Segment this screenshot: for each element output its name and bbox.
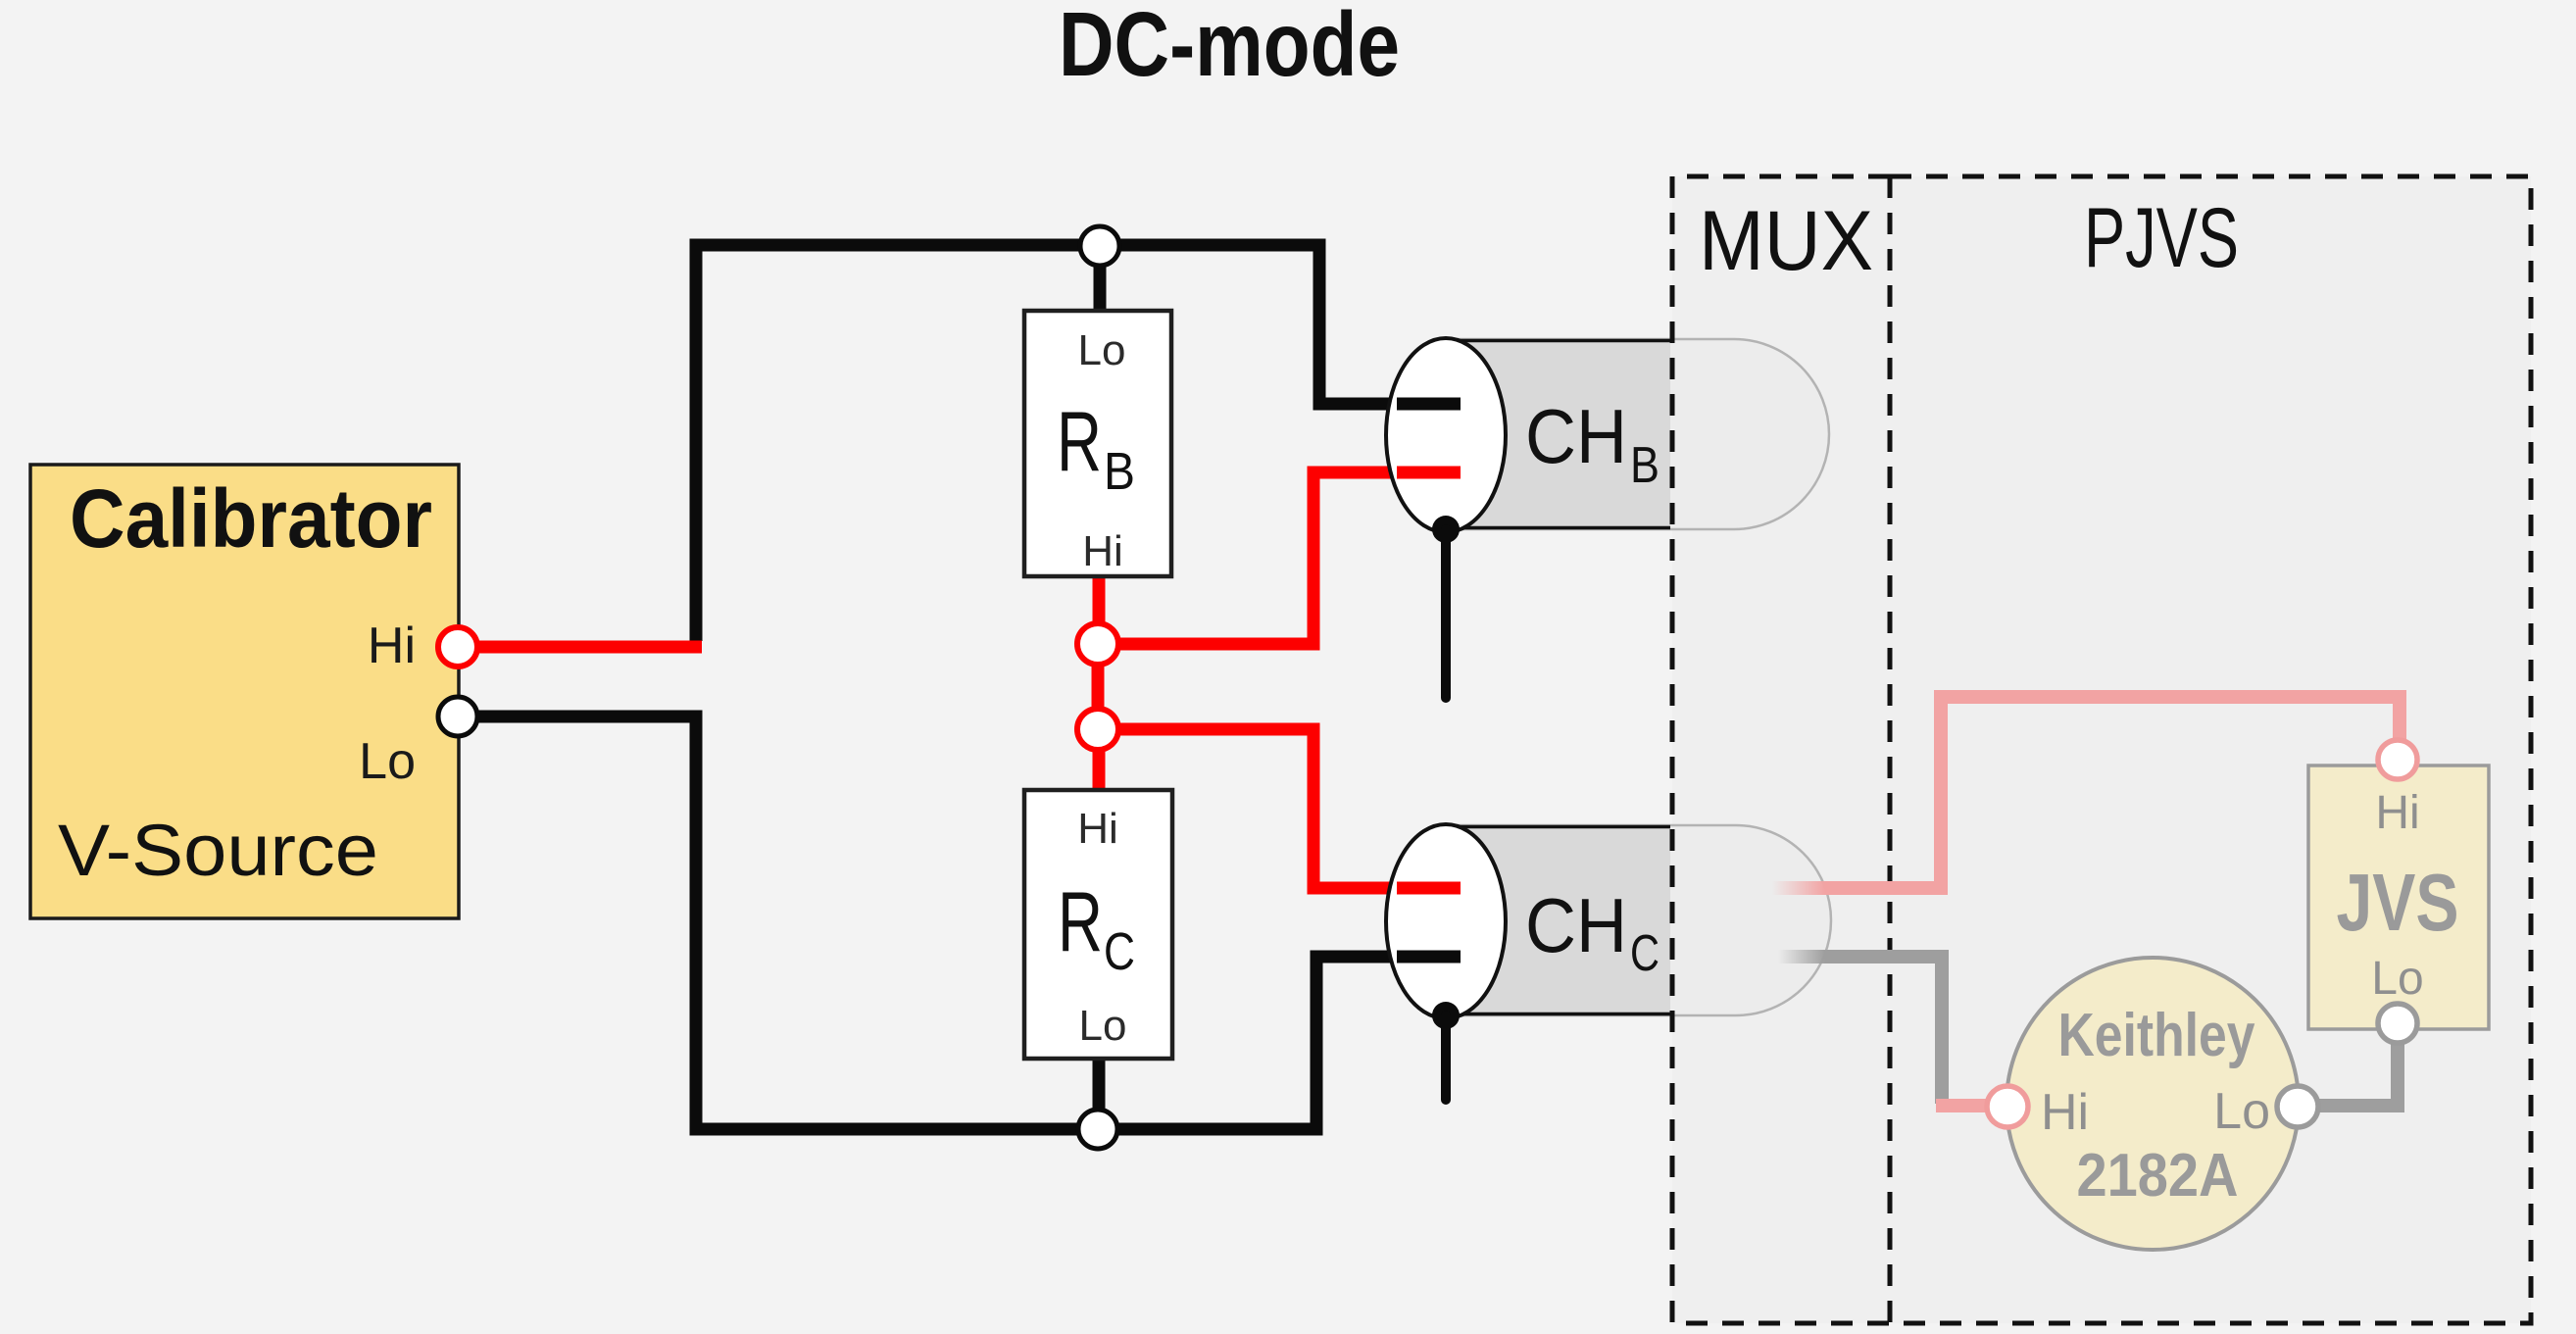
svg-text:B: B (1104, 442, 1135, 501)
connector CH_B sleeve pin tip (1397, 398, 1461, 411)
svg-text:Hi: Hi (368, 618, 416, 674)
svg-text:Calibrator: Calibrator (70, 472, 432, 565)
wire pink faded start at CH_C (1772, 881, 1827, 895)
node bottom rail junction (1078, 1110, 1117, 1149)
JVS box (2308, 766, 2489, 1029)
wire pink stub into Keithley Hi (1936, 1099, 1990, 1112)
wire red node B to CH_C center pin (1098, 729, 1461, 888)
wire red node B to R_C Hi stub (1093, 729, 1106, 790)
svg-text:Hi: Hi (2375, 787, 2419, 839)
connector CH_B face ellipse (1386, 338, 1506, 532)
wire black R_B Lo stub from top rail node (1094, 245, 1107, 311)
svg-text:DC-mode: DC-mode (1059, 0, 1400, 95)
svg-text:Keithley: Keithley (2058, 1002, 2255, 1069)
wire red node A to CH_B center pin (1098, 472, 1461, 644)
connector CH_B ghost capsule (1446, 339, 1829, 529)
wire pink CH_C center to JVS Hi (1825, 697, 2400, 888)
connector CH_C cylinder body (1439, 825, 1670, 1015)
calibrator Lo terminal node (438, 697, 477, 736)
svg-text:R: R (1057, 395, 1102, 489)
wire red R_B Hi stub to node A (1093, 576, 1106, 644)
connector CH_C shield dot (1432, 1002, 1460, 1029)
svg-text:C: C (1630, 925, 1660, 982)
svg-text:PJVS: PJVS (2084, 191, 2239, 285)
wire gray faded start at CH_C (1778, 950, 1827, 963)
svg-text:CH: CH (1525, 882, 1627, 968)
svg-text:Lo: Lo (359, 733, 416, 790)
wire gray JVS Lo to Keithley Lo (2302, 1041, 2398, 1106)
MUX enclosure dashed border (1672, 176, 1890, 1323)
svg-text:Hi: Hi (1082, 527, 1123, 575)
connector CH_C face ellipse (1386, 824, 1506, 1018)
svg-text:2182A: 2182A (2077, 1142, 2239, 1210)
svg-text:JVS: JVS (2337, 857, 2459, 948)
wire black R_C Lo stub to bottom rail node (1093, 1059, 1106, 1129)
wire black Lo net: calibrator Lo to bottom rail to CH_C sleeve (477, 716, 1461, 1129)
MUX enclosure box fill (1672, 176, 1890, 1323)
svg-text:B: B (1630, 437, 1660, 494)
connector CH_C ghost capsule (1446, 825, 1831, 1015)
svg-text:Lo: Lo (1079, 1002, 1127, 1050)
connector CH_B cylinder body (1439, 339, 1670, 529)
connector CH_C shield stub (1441, 1015, 1451, 1100)
connector CH_C label (1525, 882, 1660, 982)
connector CH_B shield stub (1441, 529, 1451, 698)
connector CH_B label (1525, 393, 1660, 494)
connector CH_B shield dot (1432, 516, 1460, 543)
connector CH_B center pin tip (1397, 467, 1461, 479)
wire red calibrator Hi to riser (477, 641, 702, 654)
Keithley 2182A circle (2006, 958, 2299, 1250)
JVS Lo terminal node (2378, 1004, 2417, 1043)
wire gray CH_C sleeve down to Keithley Hi (1825, 957, 1942, 1104)
svg-text:V-Source: V-Source (58, 810, 378, 891)
connector CH_C sleeve pin tip (1397, 951, 1461, 963)
svg-text:Lo: Lo (2213, 1083, 2270, 1140)
svg-text:Lo: Lo (2371, 953, 2423, 1005)
Keithley Hi terminal node (1987, 1086, 2028, 1127)
node A red junction (R_B Hi) (1077, 623, 1118, 665)
PJVS enclosure dashed border (1890, 176, 2531, 1323)
resistor R_B (1024, 311, 1171, 576)
node B red junction (R_C Hi) (1077, 709, 1118, 750)
calibrator box (30, 465, 459, 918)
svg-text:Lo: Lo (1078, 326, 1126, 374)
wire red node A to node B (1092, 644, 1105, 729)
svg-text:CH: CH (1525, 393, 1627, 479)
JVS Hi terminal node (2378, 740, 2417, 779)
svg-text:MUX: MUX (1699, 194, 1873, 288)
wire black Hi riser and top rail to CH_B sleeve (696, 245, 1461, 641)
node top rail junction (1080, 226, 1119, 266)
connector CH_C center pin tip (1397, 882, 1461, 895)
resistor R_C (1024, 790, 1172, 1059)
svg-text:C: C (1104, 922, 1135, 981)
calibrator Hi terminal node (438, 627, 477, 667)
svg-text:Hi: Hi (1077, 805, 1118, 853)
PJVS enclosure box fill (1890, 176, 2531, 1323)
Keithley Lo terminal node (2277, 1086, 2318, 1127)
svg-text:Hi: Hi (2041, 1084, 2089, 1141)
svg-text:R: R (1058, 875, 1103, 969)
